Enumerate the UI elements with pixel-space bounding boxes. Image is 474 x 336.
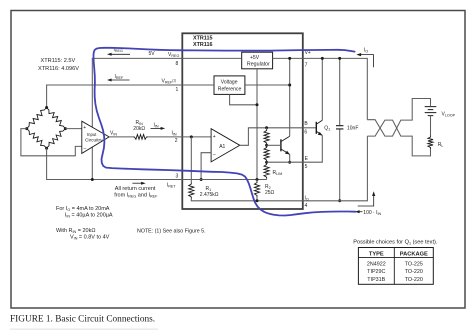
wire voltage reference output to V+ vertical [245,84,290,86]
transistor internal NPN [280,139,282,151]
twisted pair wire B [367,120,430,156]
wire V+ rail to loop top [303,58,368,119]
junction A1 minus to IRET [200,178,203,181]
svg-text:IIN = 40µA to 200µA: IIN = 40µA to 200µA [65,213,113,219]
svg-text:3: 3 [176,174,179,180]
wire voltage reference common to regulator common [230,94,257,104]
+5V regulator block [242,52,273,69]
svg-text:TIP29C: TIP29C [367,269,385,275]
capacitor C1 bottom lead [339,130,341,201]
svg-text:5: 5 [305,164,308,170]
svg-text:2N4922: 2N4922 [367,262,386,268]
svg-text:TO-225: TO-225 [405,262,423,268]
junction Q1 collector V+ [321,57,324,60]
resistor chain upper (base divider) [266,128,268,130]
resistor RLIM [264,164,269,179]
wire RIN to pin 2 [148,136,182,138]
svg-text:–: – [213,152,216,158]
wire input circuitry ground down to IRET rail [91,147,93,179]
junction chain mid base node [265,144,268,147]
wire VIN node to RIN [109,136,133,138]
blue hand-drawn highlighter loop trace [94,48,356,216]
svg-text:20kΩ: 20kΩ [133,126,145,132]
faint next-line smudge at bottom [10,328,158,330]
resistor RIN 20k [133,135,148,140]
svg-text:8: 8 [176,61,179,67]
svg-text:7: 7 [305,63,308,69]
svg-text:Voltage: Voltage [221,79,238,85]
wire pin 2 to A1 plus input [182,136,211,138]
svg-text:Regulator: Regulator [247,62,270,68]
resistor R2 25 ohm [256,180,258,182]
svg-text:+5V: +5V [250,55,260,61]
junction IRET rail R2 top [256,178,259,181]
voltage reference block [214,76,245,95]
svg-text:5V: 5V [149,51,156,57]
svg-text:2: 2 [175,138,178,144]
svg-text:XTR116: XTR116 [193,42,212,48]
capacitor C1 plates [336,126,343,129]
wire internal collector to V+ [289,58,291,136]
wire regulator common down to IRET rail [256,69,258,180]
junction VREF wire to V+ vertical [288,84,291,87]
wire R1 bottom to IO rail [191,199,302,201]
svg-text:FIGURE 1. Basic Circuit Connec: FIGURE 1. Basic Circuit Connections. [10,315,155,325]
svg-text:+: + [213,134,216,140]
svg-text:Circuitry: Circuitry [85,137,104,142]
label 100 x IIN with left arrow [358,211,363,213]
junction bridge left node [25,127,28,130]
annotation arrow IIN current [151,127,163,129]
svg-text:10nF: 10nF [347,126,358,132]
wire bridge bottom to IRET rail [47,148,183,179]
bridge sensor resistor top-left arm [27,108,47,129]
op-amp input circuitry block [82,121,109,153]
svg-text:XTR115: XTR115 [193,35,212,41]
svg-text:TYPE: TYPE [369,251,384,257]
junction bridge top node [45,106,48,109]
junction chain / E rail [265,161,268,164]
resistor chain lower [264,147,269,162]
wire Q1 collector to V+ [321,58,323,120]
svg-text:Possible choices for Q1 (see t: Possible choices for Q1 (see text). [353,239,438,245]
wire A1 output to base rail B [240,128,303,146]
transistor Q1 [315,122,317,134]
wire E rail inside [267,161,303,163]
junction R2 bottom on IO rail [256,199,259,202]
junction emitter E rail [288,161,291,164]
wire IO rail pin 4 to loop bottom [303,136,368,201]
svg-text:Reference: Reference [218,86,242,92]
bridge sensor resistor top-right arm [47,108,66,129]
junction resistor chain top on B wire [265,126,268,129]
junction cap bottom IO rail [338,199,341,202]
junction cap top V+ [338,57,341,60]
annotation return current arrow bottom right [358,194,374,206]
twisted pair wire A [367,99,430,137]
svg-text:XTR116: 4.096V: XTR116: 4.096V [38,66,79,72]
svg-text:4: 4 [305,203,308,209]
XTR115/XTR116 IC boundary box U1 [182,33,302,209]
svg-text:NOTE: (1) See also Figure 5.: NOTE: (1) See also Figure 5. [137,229,206,235]
battery VLOOP [425,107,437,116]
svg-text:TO-220: TO-220 [405,277,423,283]
svg-text:25Ω: 25Ω [265,190,275,196]
wire VREF from pin 1 to bridge top [47,85,183,108]
svg-text:+: + [83,125,86,131]
resistor R1 2.475k [189,183,194,199]
wire regulator to pin 7 V+ [273,57,303,59]
capacitor C1 10nF top lead [339,58,341,125]
table Q1 choices [358,248,433,285]
bridge sensor resistor bottom-left arm [27,129,47,149]
resistor RL load [428,136,433,150]
svg-text:TO-220: TO-220 [405,269,423,275]
wire Q1 emitter to pin 5 E [303,135,323,162]
wire VREG 5V from pin 8 to input circuitry supply [92,58,182,127]
wire pin 6 to Q1 base [303,127,317,129]
annotation arrow return current [132,182,142,184]
wire bridge right node to plus input [65,128,81,130]
junction reference common / regulator common [256,103,259,106]
op-amp A1 [211,129,240,162]
svg-text:1: 1 [176,87,179,93]
svg-text:For IO = 4mA to 20mA: For IO = 4mA to 20mA [56,206,110,212]
junction IRET rail / input circuitry ground [91,178,94,181]
wire R1 top lead [190,137,192,183]
svg-text:2.475kΩ: 2.475kΩ [200,192,219,198]
wire pin 8 to regulator [182,57,241,59]
junction R1 tap on IIN wire [190,135,193,138]
wire pin 1 to voltage reference [182,84,214,86]
bridge sensor resistor bottom-right arm [47,129,66,149]
svg-text:6: 6 [304,130,307,136]
svg-text:All return current: All return current [115,186,156,192]
wire internal emitter to E rail [289,154,291,162]
svg-text:With RIN = 20kΩ: With RIN = 20kΩ [56,228,95,234]
svg-text:A1: A1 [219,144,225,150]
junction bridge bottom node [45,147,48,150]
svg-text:–: – [84,145,87,151]
wire IRET rail inside box [182,179,266,181]
annotation arrow IREG [110,53,130,55]
junction collector V+ [288,57,291,60]
wire A1 minus input to IRET rail [201,153,211,180]
svg-text:TIP31B: TIP31B [367,277,385,283]
annotation arrow IREF [110,79,130,81]
svg-text:PACKAGE: PACKAGE [400,251,428,257]
svg-text:XTR115: 2.5V: XTR115: 2.5V [41,58,76,64]
wire bridge left node to minus input of input circuitry [21,129,82,156]
junction bridge right node [64,127,67,130]
annotation IO arrow top right [360,55,374,68]
